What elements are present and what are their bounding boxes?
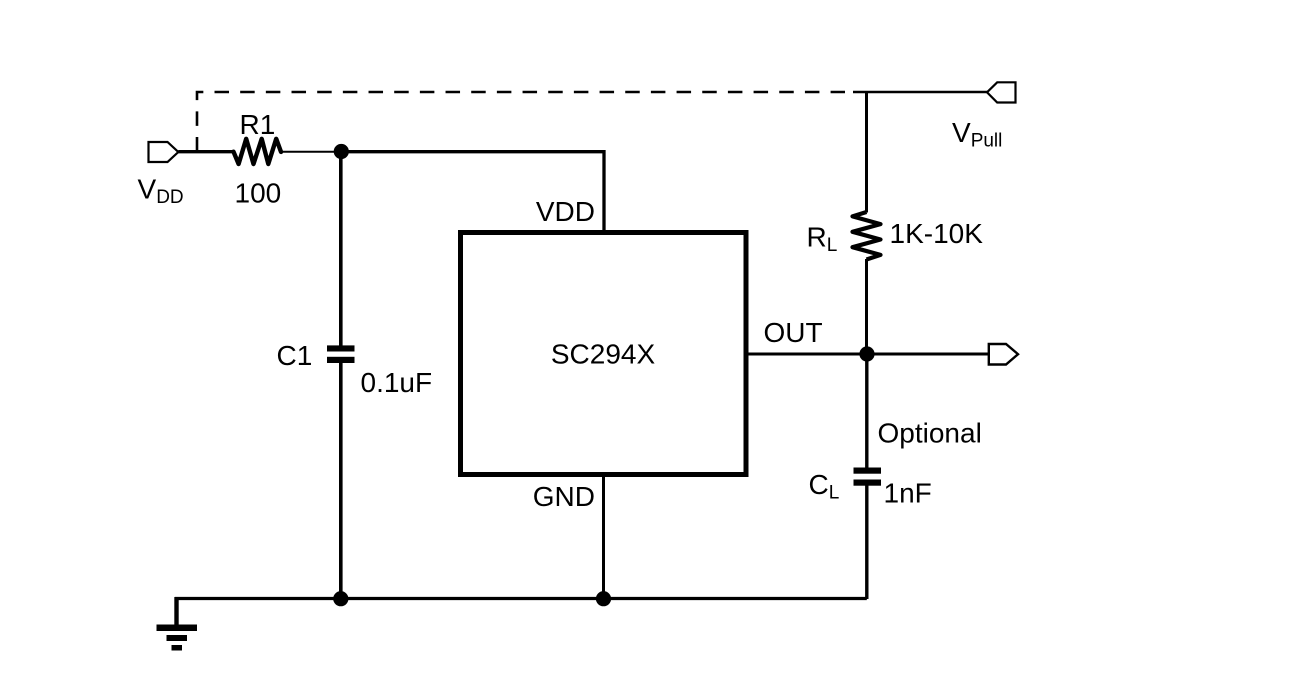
svg-text:1K-10K: 1K-10K — [890, 218, 984, 249]
wire RL to node B — [865, 259, 868, 354]
ground symbol bar 1 — [157, 625, 198, 632]
wire dashed V_Pull net — [197, 92, 845, 152]
capacitor C1 bottom plate — [327, 357, 355, 363]
resistor R1 — [234, 139, 282, 164]
ground bus wire — [177, 599, 867, 626]
wire node A down to C1 — [339, 152, 343, 347]
ground symbol bar 2 — [167, 635, 188, 641]
connector V_Pull — [987, 82, 1016, 102]
connector V_DD — [149, 142, 179, 162]
svg-text:100: 100 — [235, 178, 282, 209]
node A junction — [334, 144, 349, 159]
svg-text:C1: C1 — [277, 340, 313, 371]
wire GND pin — [602, 475, 605, 600]
wire R1 to node A — [281, 151, 341, 153]
ground stub thick — [174, 597, 178, 625]
wire node B to OUT connector — [867, 353, 989, 356]
svg-text:SC294X: SC294X — [551, 339, 656, 370]
svg-text:GND: GND — [533, 481, 595, 512]
wire top right to V_Pull connector — [853, 91, 988, 93]
capacitor C1 top plate — [327, 345, 355, 351]
svg-text:VDD: VDD — [536, 196, 595, 227]
svg-text:0.1uF: 0.1uF — [361, 367, 433, 398]
resistor RL — [853, 212, 881, 260]
wire CL to ground bus — [865, 485, 868, 599]
wire C1 to ground bus — [339, 362, 343, 600]
svg-text:Optional: Optional — [878, 418, 982, 449]
svg-text:R1: R1 — [240, 109, 276, 140]
svg-text:OUT: OUT — [764, 317, 823, 348]
capacitor CL top plate — [854, 468, 882, 474]
wire V_Pull vertical to RL — [865, 92, 868, 213]
node D junction (GND at bus) — [596, 591, 611, 606]
node C junction (C1 at bus) — [333, 591, 348, 606]
node B junction — [859, 346, 874, 361]
svg-text:1nF: 1nF — [884, 478, 932, 509]
connector OUT — [989, 344, 1018, 365]
wire node A to VDD pin — [341, 152, 604, 233]
IC U1 SC294X box — [461, 233, 747, 475]
wire OUT pin to node B — [746, 353, 867, 356]
ground symbol bar 3 — [172, 645, 183, 651]
wire node B down to CL — [865, 354, 868, 469]
wire V_DD to R1 — [178, 150, 234, 153]
capacitor CL bottom plate — [854, 480, 882, 486]
